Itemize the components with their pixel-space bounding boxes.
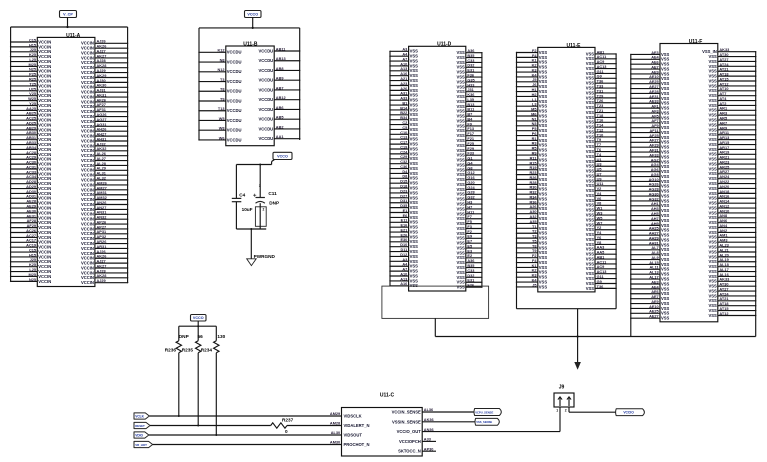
U11-B top bus bar bbox=[199, 27, 300, 29]
svg-text:AH1: AH1 bbox=[651, 202, 660, 206]
svg-text:R23: R23 bbox=[529, 171, 536, 175]
svg-text:AJ29: AJ29 bbox=[97, 279, 106, 283]
svg-text:T36: T36 bbox=[597, 285, 604, 289]
svg-text:D18: D18 bbox=[400, 184, 408, 188]
U11-E pin K4 / G9 wires bbox=[516, 279, 617, 286]
svg-text:AF5: AF5 bbox=[651, 114, 659, 118]
U11-E pin A32 / W5 wires bbox=[516, 215, 617, 222]
U11-D pin C10 / F17 wires bbox=[389, 131, 482, 138]
svg-text:F29: F29 bbox=[467, 147, 474, 151]
U11-B pin T9 / AB12 wires bbox=[198, 96, 300, 103]
U11-F pin AE6 / AT27 wires bbox=[630, 58, 756, 67]
svg-text:AH3: AH3 bbox=[651, 207, 659, 211]
svg-text:B7: B7 bbox=[467, 113, 472, 117]
svg-text:AK31: AK31 bbox=[97, 93, 108, 97]
svg-text:B35: B35 bbox=[467, 264, 475, 268]
U11-D pin D18 / G24 wires bbox=[389, 184, 482, 191]
wire C11 bottom lead bbox=[259, 203, 261, 229]
U11-B pin W8 / AB2 wires bbox=[198, 125, 300, 132]
U11-E bottom bus bar bbox=[517, 308, 617, 310]
svg-text:A7: A7 bbox=[402, 57, 407, 61]
svg-text:RESET: RESET bbox=[135, 424, 145, 428]
U11-B right bus rail bbox=[299, 28, 301, 140]
U11-E pin R9 / T4 wires bbox=[516, 151, 617, 158]
svg-text:V25: V25 bbox=[29, 92, 37, 96]
svg-text:AT15: AT15 bbox=[719, 77, 729, 81]
bottom net bus wire (U11-D/E/F common) bbox=[435, 336, 755, 338]
U11-E pin J5 / T36 wires bbox=[516, 283, 617, 290]
value 56 of R235 bbox=[198, 334, 204, 339]
svg-text:AL29: AL29 bbox=[97, 167, 106, 171]
value 10uF of C4 bbox=[242, 207, 253, 212]
svg-text:F7: F7 bbox=[467, 215, 472, 219]
svg-text:AP26: AP26 bbox=[97, 220, 107, 224]
svg-text:AC34: AC34 bbox=[26, 175, 37, 179]
svg-text:AE7: AE7 bbox=[651, 65, 658, 69]
svg-text:AF27: AF27 bbox=[649, 139, 658, 143]
svg-text:AP32: AP32 bbox=[97, 235, 107, 239]
svg-text:AL16: AL16 bbox=[719, 273, 728, 277]
svg-text:AB8: AB8 bbox=[276, 67, 285, 71]
svg-text:AC33: AC33 bbox=[26, 170, 36, 174]
svg-text:U11-A: U11-A bbox=[66, 33, 81, 39]
U11-E pin R1 / T9 wires bbox=[516, 137, 617, 144]
svg-text:AE6: AE6 bbox=[651, 290, 658, 294]
U11-A pin AB30 / AH27 wires bbox=[10, 131, 128, 138]
svg-text:AF25: AF25 bbox=[649, 134, 659, 138]
svg-text:VCCIOPCH: VCCIOPCH bbox=[399, 439, 421, 444]
svg-text:AH27: AH27 bbox=[649, 232, 659, 236]
svg-text:AP31: AP31 bbox=[97, 230, 107, 234]
U11-E pin R5 / T6 wires bbox=[516, 147, 617, 154]
U11-E pin L1 / T26 wires bbox=[516, 98, 617, 105]
svg-text:VCCIN: VCCIN bbox=[81, 280, 94, 285]
svg-text:T9: T9 bbox=[220, 97, 225, 101]
svg-text:AL7: AL7 bbox=[651, 246, 658, 250]
svg-text:T18: T18 bbox=[597, 114, 604, 118]
U11-E pin H2 / T29 wires bbox=[516, 93, 617, 100]
svg-text:AF31: AF31 bbox=[97, 108, 107, 112]
svg-text:AJ27: AJ27 bbox=[97, 260, 106, 264]
junction C11 top bbox=[259, 164, 261, 166]
svg-text:VCPU_SENSE: VCPU_SENSE bbox=[475, 410, 493, 414]
svg-text:AC31: AC31 bbox=[26, 165, 37, 169]
svg-text:Y6: Y6 bbox=[597, 236, 602, 240]
svg-text:AC25: AC25 bbox=[26, 117, 37, 121]
svg-text:VSS_SENSE: VSS_SENSE bbox=[476, 420, 492, 424]
wire VCCO to U11-B bus bbox=[252, 18, 254, 28]
svg-text:AE4: AE4 bbox=[651, 285, 659, 289]
U11-F pin AF29 / AR15 wires bbox=[630, 141, 756, 150]
svg-text:AJ32: AJ32 bbox=[97, 142, 106, 146]
U11-F pin AF9 / AR7 wires bbox=[630, 121, 756, 130]
svg-text:AE31: AE31 bbox=[26, 214, 36, 218]
U11-F pin AL17 / AL16 wires bbox=[630, 273, 756, 282]
svg-text:AJ28: AJ28 bbox=[97, 269, 107, 273]
IC U11-F body bbox=[660, 39, 718, 322]
svg-text:AM30: AM30 bbox=[330, 441, 340, 445]
svg-text:VCCDU: VCCDU bbox=[227, 137, 242, 142]
svg-text:U11-F: U11-F bbox=[689, 39, 703, 45]
U11-C pin name VCCIN_SENSE bbox=[392, 410, 421, 415]
svg-text:T9: T9 bbox=[532, 249, 537, 253]
wire R236 to VIDSCLK net bbox=[178, 353, 180, 417]
svg-text:E31: E31 bbox=[467, 279, 475, 283]
svg-text:G1: G1 bbox=[467, 157, 473, 161]
svg-text:B1: B1 bbox=[402, 101, 408, 105]
svg-text:AE25: AE25 bbox=[649, 80, 659, 84]
svg-text:AA5: AA5 bbox=[597, 251, 606, 255]
U11-E pin N1 / T16 wires bbox=[516, 117, 617, 124]
svg-text:U7: U7 bbox=[597, 172, 602, 176]
U11-A pin K25 / AK27 wires bbox=[10, 53, 128, 60]
U11-A pin J25 / AJ27 wires bbox=[10, 258, 128, 265]
svg-text:A4: A4 bbox=[402, 53, 408, 57]
U11-F pin AL11 / AL18 wires bbox=[630, 263, 756, 272]
svg-text:G12: G12 bbox=[467, 171, 474, 175]
U11-F pin AL13 / AL17 wires bbox=[630, 268, 756, 277]
U11-C pin name PROCHOT_N bbox=[344, 442, 370, 447]
U11-A pin AC33 / AL31 wires bbox=[10, 170, 128, 177]
svg-text:A30: A30 bbox=[529, 210, 536, 214]
svg-text:AE10: AE10 bbox=[649, 305, 659, 309]
U11-A pin AC19 / AR31 wires bbox=[10, 244, 128, 251]
svg-text:D15: D15 bbox=[400, 180, 408, 184]
svg-text:AR3: AR3 bbox=[719, 112, 727, 116]
U11-C pin name VIDSOUT bbox=[344, 433, 363, 438]
svg-text:R3: R3 bbox=[532, 142, 537, 146]
svg-text:AE25: AE25 bbox=[649, 310, 659, 314]
svg-text:A21: A21 bbox=[400, 77, 408, 81]
svg-text:AT24: AT24 bbox=[719, 292, 729, 296]
wire U11-D box to net bus bbox=[434, 318, 436, 336]
U11-E pin T5 / Y8 wires bbox=[516, 239, 617, 246]
U11-D pin A31 / K36 wires bbox=[389, 92, 482, 99]
svg-text:AG28: AG28 bbox=[649, 188, 660, 192]
svg-text:K3: K3 bbox=[532, 274, 537, 278]
U11-D pin A16 / F36 wires bbox=[389, 72, 482, 79]
svg-text:AF1: AF1 bbox=[651, 105, 659, 109]
svg-text:AF31: AF31 bbox=[649, 149, 659, 153]
svg-text:T36: T36 bbox=[597, 80, 604, 84]
capacitor C4 bbox=[232, 192, 246, 201]
svg-text:F21: F21 bbox=[467, 137, 474, 141]
svg-text:AT30: AT30 bbox=[719, 53, 728, 57]
wire R235 top lead bbox=[197, 326, 199, 341]
svg-text:AD29: AD29 bbox=[26, 185, 36, 189]
svg-text:AR15: AR15 bbox=[719, 141, 730, 145]
U11-E pin R26 / U9 wires bbox=[516, 176, 617, 183]
U11-D pin E16 / F3 wires bbox=[389, 224, 482, 231]
svg-text:W5: W5 bbox=[219, 117, 226, 121]
svg-text:AL28: AL28 bbox=[97, 162, 107, 166]
U11-A pin AC34 / AL32 wires bbox=[10, 175, 128, 182]
svg-text:AF27: AF27 bbox=[97, 103, 106, 107]
svg-text:AE31: AE31 bbox=[649, 95, 659, 99]
svg-text:AH25: AH25 bbox=[649, 227, 660, 231]
U11-E pin T3 / Y6 wires bbox=[516, 235, 617, 242]
svg-text:VCCDU: VCCDU bbox=[227, 69, 242, 74]
U11-A pin H15 / AK26 wires bbox=[10, 253, 128, 260]
svg-text:N25: N25 bbox=[29, 278, 37, 282]
U11-F pin AH27 / AN2 wires bbox=[630, 229, 756, 238]
svg-text:VSS: VSS bbox=[539, 284, 548, 289]
svg-text:K4: K4 bbox=[532, 73, 538, 77]
wire U11-E bus down to arrow bbox=[577, 309, 579, 363]
svg-text:AJ29: AJ29 bbox=[97, 69, 106, 73]
svg-text:VCCDU: VCCDU bbox=[227, 108, 242, 113]
svg-text:T7: T7 bbox=[597, 143, 602, 147]
svg-text:AR17: AR17 bbox=[719, 146, 729, 150]
svg-text:AM32: AM32 bbox=[97, 196, 107, 200]
svg-text:B11: B11 bbox=[467, 108, 475, 112]
connector J9 body bbox=[554, 384, 574, 407]
wire R237 to U11-C VIDALERT_N bbox=[287, 425, 342, 427]
svg-text:G8: G8 bbox=[467, 166, 473, 170]
svg-text:AR1: AR1 bbox=[719, 107, 728, 111]
svg-text:VCCIO: VCCIO bbox=[623, 411, 634, 415]
svg-text:AK29: AK29 bbox=[97, 74, 107, 78]
svg-text:C29: C29 bbox=[400, 155, 407, 159]
svg-text:AM26: AM26 bbox=[97, 181, 107, 185]
svg-text:AN6: AN6 bbox=[719, 219, 727, 223]
wire VCCIO_OUT to J9 bbox=[422, 431, 560, 433]
svg-text:AL17: AL17 bbox=[719, 268, 728, 272]
svg-text:T26: T26 bbox=[597, 99, 604, 103]
IC U11-D body bbox=[409, 42, 466, 291]
U11-D pin E21 / F2 wires bbox=[389, 228, 482, 235]
svg-text:AE10: AE10 bbox=[649, 75, 659, 79]
svg-text:A26: A26 bbox=[529, 205, 536, 209]
svg-text:AN26: AN26 bbox=[97, 201, 107, 205]
svg-text:R28: R28 bbox=[529, 181, 537, 185]
U11-A pin AC29 / AL27 wires bbox=[10, 156, 128, 163]
U11-D pin A3 / A36 wires bbox=[389, 48, 482, 55]
svg-text:T13: T13 bbox=[218, 107, 225, 111]
svg-text:G9: G9 bbox=[597, 75, 602, 79]
svg-text:AR21: AR21 bbox=[719, 156, 730, 160]
U11-F pin AH25 / AN4 wires bbox=[630, 224, 756, 233]
U11-E pin M5 / T21 wires bbox=[516, 108, 617, 115]
U11-E pin A30 / W3 wires bbox=[516, 210, 617, 217]
U11-F pin AE28 / AT10 wires bbox=[630, 87, 756, 96]
U11-E pin P5 / T12 wires bbox=[516, 127, 617, 134]
U11-E pin R15 / U3 wires bbox=[516, 161, 617, 168]
svg-text:U11-B: U11-B bbox=[243, 41, 258, 47]
U11-E pin K2 / AC13 wires bbox=[516, 269, 617, 276]
svg-text:G16: G16 bbox=[467, 176, 474, 180]
svg-text:56: 56 bbox=[198, 334, 204, 339]
U11-F pin AG6 / AR25 wires bbox=[630, 165, 756, 174]
U11-F pin AF7 / AR5 wires bbox=[630, 116, 756, 125]
svg-text:AT2: AT2 bbox=[719, 102, 726, 106]
svg-text:AK33: AK33 bbox=[719, 278, 729, 282]
svg-text:AR25: AR25 bbox=[719, 165, 730, 169]
svg-text:AH9: AH9 bbox=[651, 222, 659, 226]
U11-C pin name VCCIO_OUT bbox=[397, 429, 422, 434]
svg-text:AN2: AN2 bbox=[719, 229, 727, 233]
svg-text:VSSIN_SENSE: VSSIN_SENSE bbox=[392, 419, 421, 424]
svg-text:AG10: AG10 bbox=[649, 178, 659, 182]
svg-text:V6: V6 bbox=[597, 197, 602, 201]
svg-text:AN10: AN10 bbox=[719, 209, 729, 213]
U11-A top bus bar bbox=[11, 26, 128, 28]
U11-A pin AD29 / AM27 wires bbox=[10, 185, 128, 192]
U11-D pin C2 / F9 wires bbox=[389, 121, 482, 128]
svg-text:VCCO: VCCO bbox=[193, 316, 204, 320]
U11-C pin name SKTOCC_N bbox=[398, 449, 421, 454]
svg-text:AC27: AC27 bbox=[26, 234, 36, 238]
svg-text:C32: C32 bbox=[400, 160, 407, 164]
svg-text:F36: F36 bbox=[467, 284, 474, 288]
svg-text:T6: T6 bbox=[597, 148, 602, 152]
svg-text:T3: T3 bbox=[220, 78, 225, 82]
svg-text:T33: T33 bbox=[597, 85, 604, 89]
U11-B pin N12 / AB8 wires bbox=[198, 67, 300, 74]
U11-F pin AE4 / AT30 wires bbox=[630, 283, 756, 292]
svg-text:DNP: DNP bbox=[179, 334, 189, 339]
svg-text:AG4: AG4 bbox=[651, 163, 660, 167]
U11-D right bus rail bbox=[481, 53, 483, 286]
J9 pin 1 arrow bbox=[558, 397, 562, 406]
svg-text:AT4: AT4 bbox=[719, 97, 727, 101]
U11-F pin AG32 / AN16 wires bbox=[630, 195, 756, 204]
svg-text:AB29: AB29 bbox=[26, 126, 36, 130]
svg-text:R236: R236 bbox=[165, 348, 177, 353]
svg-text:AL17: AL17 bbox=[649, 276, 658, 280]
U11-D pin A26 / J31 wires bbox=[389, 87, 482, 94]
svg-text:AE29: AE29 bbox=[26, 204, 36, 208]
svg-text:G11: G11 bbox=[597, 275, 605, 279]
svg-text:AB34: AB34 bbox=[26, 146, 37, 150]
wire VDIO to U11-C VIDSOUT bbox=[149, 434, 342, 436]
svg-text:AE7: AE7 bbox=[651, 295, 658, 299]
svg-text:AT24: AT24 bbox=[719, 63, 729, 67]
svg-text:AR13: AR13 bbox=[719, 136, 729, 140]
svg-text:L25: L25 bbox=[29, 58, 36, 62]
svg-text:AP27: AP27 bbox=[97, 225, 107, 229]
svg-text:AE9: AE9 bbox=[651, 70, 658, 74]
svg-text:H1: H1 bbox=[532, 88, 538, 92]
svg-text:A16: A16 bbox=[400, 72, 407, 76]
svg-text:J9: J9 bbox=[559, 384, 565, 390]
U11-A pin H15 / AK26 wires bbox=[10, 43, 128, 50]
svg-text:H3: H3 bbox=[467, 200, 472, 204]
U11-D pin A3 / A36 wires bbox=[389, 258, 482, 265]
U11-A pin N25 / AJ29 wires bbox=[10, 68, 128, 75]
svg-text:VCCIN_SENSE: VCCIN_SENSE bbox=[392, 410, 421, 415]
U11-F pin AE7 / AT24 wires bbox=[630, 63, 756, 72]
svg-text:AT21: AT21 bbox=[719, 68, 729, 72]
svg-text:AJ27: AJ27 bbox=[97, 49, 106, 53]
svg-text:U5: U5 bbox=[597, 168, 603, 172]
U11-F pin AE27 / AT12 wires bbox=[630, 82, 756, 91]
svg-text:AB33: AB33 bbox=[26, 141, 36, 145]
svg-text:U1: U1 bbox=[597, 158, 603, 162]
svg-text:AK28: AK28 bbox=[97, 64, 108, 68]
U11-A pin AC17 / AR26 wires bbox=[10, 239, 128, 246]
svg-text:AE33: AE33 bbox=[649, 100, 659, 104]
U11-E pin P6 / T10 wires bbox=[516, 132, 617, 139]
svg-text:VIDSOUT: VIDSOUT bbox=[344, 433, 363, 438]
svg-text:N1: N1 bbox=[532, 117, 538, 121]
svg-text:W1: W1 bbox=[597, 207, 604, 211]
U11-F pin AH3 / AN12 wires bbox=[630, 204, 756, 213]
svg-text:A16: A16 bbox=[400, 282, 407, 286]
svg-text:AR7: AR7 bbox=[719, 121, 727, 125]
U11-F pin AE7 / AT24 wires bbox=[630, 292, 756, 301]
wire VCCIN_SENSE to flag bbox=[422, 411, 474, 413]
svg-text:F17: F17 bbox=[467, 132, 474, 136]
U11-F pin AF3 / AR1 wires bbox=[630, 107, 756, 116]
svg-text:AC13: AC13 bbox=[597, 270, 607, 274]
svg-text:AJ26: AJ26 bbox=[97, 250, 106, 254]
svg-text:C15: C15 bbox=[29, 248, 37, 252]
IC U11-C body bbox=[342, 393, 423, 456]
svg-text:AE9: AE9 bbox=[651, 300, 658, 304]
svg-text:A31: A31 bbox=[400, 92, 408, 96]
U11-F pin AG8 / AR27 wires bbox=[630, 170, 756, 179]
svg-text:E21: E21 bbox=[400, 228, 408, 232]
U11-B pin T3 / AB9 wires bbox=[198, 77, 300, 84]
stub wire SKTOCC_N bbox=[422, 450, 436, 452]
svg-text:VIDALERT_N: VIDALERT_N bbox=[344, 423, 370, 428]
svg-text:R234: R234 bbox=[201, 348, 213, 353]
svg-text:AE28: AE28 bbox=[649, 90, 659, 94]
svg-text:A10: A10 bbox=[400, 62, 407, 66]
svg-text:AN27: AN27 bbox=[97, 206, 107, 210]
U11-E left bus rail bbox=[516, 53, 518, 309]
svg-text:C15: C15 bbox=[29, 38, 37, 42]
svg-text:AL30: AL30 bbox=[331, 431, 340, 435]
svg-text:F2: F2 bbox=[532, 254, 537, 258]
svg-text:V2: V2 bbox=[597, 187, 602, 191]
U11-C pin name VSSIN_SENSE bbox=[392, 419, 421, 424]
svg-text:A4: A4 bbox=[402, 263, 408, 267]
U11-C pin number AK36 bbox=[424, 418, 434, 422]
svg-text:P6: P6 bbox=[532, 132, 537, 136]
svg-text:R30: R30 bbox=[529, 186, 536, 190]
svg-text:E30: E30 bbox=[400, 238, 407, 242]
U11-D pin D10 / E5 wires bbox=[389, 243, 482, 250]
net flag RESET bbox=[134, 422, 150, 428]
U11-E pin L3 / T23 wires bbox=[516, 103, 617, 110]
svg-text:VCCDU: VCCDU bbox=[227, 89, 242, 94]
svg-text:AC11: AC11 bbox=[597, 55, 607, 59]
svg-text:B22: B22 bbox=[400, 111, 407, 115]
U11-D pin D15 / G20 wires bbox=[389, 180, 482, 187]
svg-text:AT18: AT18 bbox=[719, 73, 729, 77]
svg-text:AF26: AF26 bbox=[97, 98, 106, 102]
DNP outline box under C11, pin 2 bbox=[255, 207, 266, 227]
svg-text:A13: A13 bbox=[400, 277, 407, 281]
U11-D pin A33 / L35 wires bbox=[389, 97, 482, 104]
U11-C pin number AN36 bbox=[424, 428, 434, 432]
svg-text:A23: A23 bbox=[400, 82, 407, 86]
U11-F pin AE25 / AT15 wires bbox=[630, 307, 756, 316]
svg-text:AF29: AF29 bbox=[649, 144, 658, 148]
U11-E pin T8 / AA3 wires bbox=[516, 244, 617, 251]
svg-text:VCCDU: VCCDU bbox=[258, 58, 273, 63]
U11-D pin A10 / D32 wires bbox=[389, 272, 482, 279]
svg-text:R9: R9 bbox=[532, 151, 537, 155]
svg-text:R235: R235 bbox=[182, 348, 194, 353]
U11-A pin V25 / AK31 wires bbox=[10, 92, 128, 99]
U11-A pin R25 / AJ30 wires bbox=[10, 77, 128, 84]
U11-C pin number AM29 bbox=[330, 412, 340, 416]
svg-text:AE27: AE27 bbox=[649, 85, 659, 89]
wire VCCO flag down to cap top bus bbox=[272, 160, 275, 165]
